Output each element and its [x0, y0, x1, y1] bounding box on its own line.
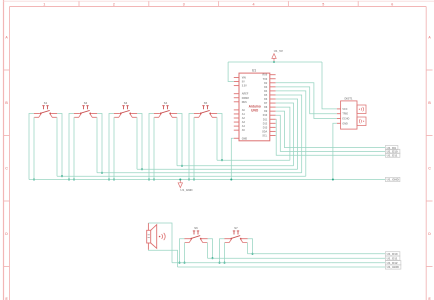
- wire GND bus horizontal: [29, 179, 385, 181]
- speaker SP1: [147, 223, 165, 250]
- wire 5V net to arduino 5V pin: [228, 62, 234, 82]
- wire 5V net to sensor VCC: [322, 62, 337, 109]
- svg-text:1: 1: [43, 2, 45, 6]
- junction switch S2 left pins on GND bus: [68, 178, 70, 180]
- wire switch S4 inner-right down to bus: [176, 117, 178, 166]
- svg-text:TX0: TX0: [263, 78, 268, 81]
- wire switch S1 inner-left to GND bus: [33, 117, 35, 179]
- junction switch S1 inner-left on GND bus: [33, 178, 35, 180]
- wire net line 3: [172, 262, 385, 264]
- wire net line 1: [248, 253, 386, 255]
- junction switch S3 left pins on GND bus: [108, 178, 110, 180]
- junction switch S6 outer-right: [211, 257, 213, 259]
- wire sensor GND to GND bus: [333, 123, 337, 179]
- net label U1_GND bottom: [385, 265, 401, 269]
- net label U1_D11 bottom: [385, 256, 400, 260]
- svg-text:C: C: [428, 167, 431, 171]
- wire switch S4 inner-left to GND bus: [153, 117, 155, 179]
- svg-text:D: D: [428, 232, 431, 236]
- wire switch S2 outer-right down to bus: [97, 114, 102, 173]
- wire switch S3 outer-left to GND bus: [109, 114, 114, 180]
- wire arduino U1_D10 to net label: [276, 115, 386, 151]
- wire switch S5 inner-right down to bus: [216, 117, 218, 160]
- wire switch S2 outer-left to GND bus: [69, 114, 74, 180]
- wire net switch S3 horizontal bus: [137, 168, 298, 170]
- pushbutton switch S5 symbol: [194, 105, 218, 117]
- wire switch S2 inner-left to GND bus: [73, 117, 75, 179]
- ultrasonic sensor DIST1 box: [341, 101, 357, 129]
- svg-text:RES: RES: [242, 101, 247, 104]
- svg-text:3: 3: [183, 2, 185, 6]
- pushbutton switch S3 symbol: [114, 105, 138, 117]
- junction sensor GND on GND bus: [332, 178, 334, 180]
- wire switch S3 inner-right down to bus: [136, 117, 138, 169]
- wire arduino D2 to sensor ECHO: [276, 83, 337, 119]
- svg-text:S3: S3: [124, 101, 128, 105]
- net label U1_GND right: [385, 177, 400, 181]
- wire switch S5 inner-left to GND bus: [193, 117, 195, 179]
- junction ground symbol on GND bus: [179, 178, 181, 180]
- svg-text:DIST1: DIST1: [345, 97, 353, 101]
- wire switch S2 inner-right down to bus: [96, 117, 98, 173]
- power symbol U1_5V: [272, 49, 283, 62]
- svg-text:U1_D11: U1_D11: [387, 153, 398, 157]
- junction switch S2 outer-right on bus: [101, 172, 103, 174]
- wire bottom switch left pins down: [180, 239, 185, 263]
- wire switch S1 outer-right down to bus: [57, 114, 62, 177]
- net label U1_D11: [385, 153, 400, 157]
- wire arduino D5 fan segment: [276, 95, 302, 173]
- wire arduino U1_D11 to net label: [276, 119, 386, 155]
- junction switch S4 left pins on GND bus: [148, 178, 150, 180]
- wire arduino D8 fan segment: [276, 107, 290, 160]
- ground symbol U1_GND: [178, 180, 193, 192]
- wire bottom switch left pins down: [220, 239, 225, 263]
- arduino U1 right pins: [262, 74, 275, 138]
- svg-text:U1: U1: [252, 68, 256, 72]
- svg-text:D11: D11: [263, 118, 268, 121]
- arduino U1 box: [239, 73, 270, 141]
- wire switch S1 inner-right down to bus: [56, 117, 58, 176]
- pushbutton switch S7 symbol: [224, 231, 248, 243]
- svg-text:S1: S1: [44, 101, 48, 105]
- wire arduino D7 fan segment: [276, 103, 294, 166]
- svg-text:5V: 5V: [242, 81, 245, 84]
- wire switch S7 right pins to net line 1: [248, 239, 253, 254]
- svg-text:S7: S7: [234, 226, 238, 230]
- arduino U1 left pins: [234, 77, 250, 141]
- svg-text:S6: S6: [194, 226, 198, 230]
- ultrasonic sensor DIST1 pins: [337, 108, 350, 125]
- wire net switch S2 horizontal bus: [97, 172, 302, 174]
- ultrasonic sensor transducer T: [357, 105, 366, 114]
- pushbutton switch S6 symbol: [184, 231, 208, 243]
- svg-text:S4: S4: [164, 101, 168, 105]
- svg-text:D10: D10: [263, 114, 268, 117]
- net label U1_D9: [385, 146, 398, 150]
- ultrasonic sensor transducer R: [357, 117, 366, 126]
- net label U1_D10 bottom: [385, 252, 400, 256]
- svg-text:U1_5V: U1_5V: [274, 49, 283, 53]
- svg-text:B: B: [5, 101, 8, 105]
- svg-text:VIN: VIN: [242, 77, 246, 80]
- wire switch S3 outer-right down to bus: [137, 114, 142, 170]
- junction switch S7 outer-right: [251, 253, 253, 255]
- wire arduino D4 fan segment: [276, 91, 306, 176]
- wire switch S4 outer-left to GND bus: [149, 114, 154, 180]
- svg-text:U1_GND: U1_GND: [387, 265, 400, 269]
- svg-text:U1_D10: U1_D10: [387, 252, 398, 256]
- svg-text:B: B: [428, 101, 431, 105]
- wire net line 2: [208, 257, 386, 259]
- svg-text:A: A: [5, 36, 8, 40]
- svg-text:4: 4: [253, 2, 255, 6]
- svg-text:U1_GND: U1_GND: [387, 178, 400, 182]
- junction 5V symbol on 5V net: [273, 61, 275, 63]
- wire 5V net horizontal: [228, 61, 322, 63]
- junction switch S1 outer-right on bus: [61, 175, 63, 177]
- wire arduino D3 to sensor TRIG: [276, 87, 337, 114]
- wire arduino D6 fan segment: [276, 99, 298, 169]
- svg-text:VCC: VCC: [342, 108, 347, 111]
- wire net switch S5 horizontal bus: [217, 159, 290, 161]
- junction bottom switch left pins: [218, 262, 220, 264]
- wire switch S1 outer-left to GND bus: [29, 114, 34, 180]
- svg-text:U1_D11: U1_D11: [387, 256, 398, 260]
- wire arduino GND pin to GND bus: [231, 138, 234, 179]
- svg-text:RX0: RX0: [263, 74, 268, 77]
- svg-text:GND: GND: [342, 122, 348, 125]
- wire switch S6 right pins to net line 2: [208, 239, 213, 259]
- net label U1_D10: [385, 149, 400, 153]
- svg-text:D13: D13: [263, 126, 268, 129]
- svg-text:GND: GND: [242, 137, 248, 140]
- svg-text:3.3V: 3.3V: [242, 85, 247, 88]
- svg-text:2: 2: [113, 2, 115, 6]
- svg-text:6: 6: [391, 2, 393, 6]
- junction bottom switch left pins: [178, 262, 180, 264]
- junction switch S5 left pins on GND bus: [188, 178, 190, 180]
- svg-text:S5: S5: [204, 101, 208, 105]
- svg-text:C: C: [5, 167, 8, 171]
- svg-text:D: D: [5, 232, 8, 236]
- junction switch S3 outer-right on bus: [141, 168, 143, 170]
- frame column numbers: [43, 2, 393, 6]
- junction switch S4 outer-right on bus: [181, 165, 183, 167]
- svg-text:ECHO: ECHO: [342, 118, 349, 121]
- wire net switch S4 horizontal bus: [177, 165, 294, 167]
- svg-text:AREF: AREF: [242, 93, 249, 96]
- svg-text:A: A: [428, 36, 431, 40]
- svg-text:5: 5: [322, 2, 324, 6]
- svg-text:S2: S2: [84, 101, 88, 105]
- svg-text:UNO: UNO: [251, 108, 259, 112]
- junction switch S5 outer-right on bus: [221, 159, 223, 161]
- wire net line 4: [178, 266, 386, 268]
- pushbutton switch S1 symbol: [34, 105, 58, 117]
- svg-text:SDA: SDA: [262, 130, 267, 133]
- wire switch S5 outer-right down to bus: [217, 114, 222, 161]
- junction arduino GND on GND bus: [230, 178, 232, 180]
- wire switch S5 outer-left to GND bus: [189, 114, 194, 180]
- svg-text:IOREF: IOREF: [242, 97, 250, 100]
- svg-text:TRIG: TRIG: [342, 113, 348, 116]
- pushbutton switch S4 symbol: [154, 105, 178, 117]
- wire net switch S1 horizontal bus: [57, 175, 306, 177]
- wire arduino U1_D9 to net label: [276, 111, 386, 147]
- wire speaker top to net line 3: [148, 223, 172, 263]
- wire switch S4 outer-right down to bus: [177, 114, 182, 166]
- svg-text:U1_GND: U1_GND: [180, 188, 193, 192]
- svg-text:SCL: SCL: [262, 134, 267, 137]
- wire speaker bottom to net line 4: [148, 250, 177, 267]
- pushbutton switch S2 symbol: [74, 105, 98, 117]
- wire switch S3 inner-left to GND bus: [113, 117, 115, 179]
- svg-text:D12: D12: [263, 122, 268, 125]
- net label U1_D12 bottom: [385, 261, 401, 265]
